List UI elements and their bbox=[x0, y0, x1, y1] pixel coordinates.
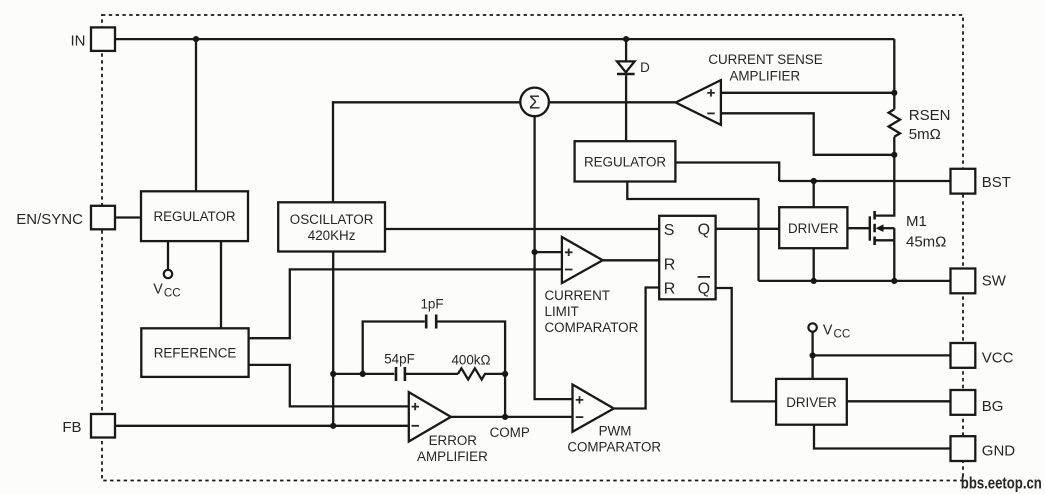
svg-text:RSEN: RSEN bbox=[909, 107, 951, 124]
svg-text:COMP: COMP bbox=[490, 425, 530, 440]
svg-text:COMPARATOR: COMPARATOR bbox=[545, 320, 639, 335]
svg-text:400kΩ: 400kΩ bbox=[451, 352, 490, 367]
svg-text:R: R bbox=[664, 256, 676, 273]
svg-text:OSCILLATOR: OSCILLATOR bbox=[290, 212, 374, 227]
svg-text:REGULATOR: REGULATOR bbox=[153, 209, 235, 224]
svg-text:5mΩ: 5mΩ bbox=[909, 126, 941, 143]
svg-text:IN: IN bbox=[71, 33, 86, 50]
svg-text:D: D bbox=[640, 60, 650, 75]
svg-text:V: V bbox=[153, 281, 163, 297]
svg-text:REFERENCE: REFERENCE bbox=[154, 345, 237, 360]
svg-text:PWM: PWM bbox=[599, 423, 632, 438]
svg-text:VCC: VCC bbox=[982, 349, 1014, 366]
svg-text:CC: CC bbox=[834, 328, 851, 341]
svg-text:V: V bbox=[823, 322, 833, 338]
svg-text:DRIVER: DRIVER bbox=[788, 221, 839, 236]
svg-text:M1: M1 bbox=[906, 213, 927, 230]
svg-text:54pF: 54pF bbox=[384, 351, 415, 366]
svg-text:bbs.eetop.cn: bbs.eetop.cn bbox=[961, 474, 1042, 493]
svg-text:Σ: Σ bbox=[529, 92, 540, 113]
svg-text:EN/SYNC: EN/SYNC bbox=[16, 211, 83, 228]
svg-text:COMPARATOR: COMPARATOR bbox=[567, 440, 661, 455]
svg-text:BST: BST bbox=[982, 174, 1011, 191]
svg-text:BG: BG bbox=[982, 398, 1004, 415]
svg-text:CURRENT: CURRENT bbox=[545, 288, 610, 303]
svg-text:ERROR: ERROR bbox=[429, 433, 478, 448]
svg-text:GND: GND bbox=[982, 443, 1016, 460]
svg-text:LIMIT: LIMIT bbox=[545, 304, 579, 319]
svg-text:REGULATOR: REGULATOR bbox=[584, 154, 666, 169]
svg-text:CURRENT SENSE: CURRENT SENSE bbox=[708, 52, 822, 67]
svg-text:1pF: 1pF bbox=[420, 296, 443, 311]
svg-text:DRIVER: DRIVER bbox=[786, 395, 837, 410]
svg-text:Q: Q bbox=[698, 222, 710, 239]
svg-text:S: S bbox=[664, 222, 675, 239]
svg-text:Q: Q bbox=[698, 281, 710, 298]
svg-text:AMPLIFIER: AMPLIFIER bbox=[729, 68, 800, 83]
svg-text:45mΩ: 45mΩ bbox=[906, 233, 946, 250]
svg-text:CC: CC bbox=[164, 287, 181, 300]
svg-text:R: R bbox=[664, 281, 676, 298]
svg-text:SW: SW bbox=[982, 272, 1007, 289]
svg-text:FB: FB bbox=[62, 419, 81, 436]
svg-text:AMPLIFIER: AMPLIFIER bbox=[417, 449, 488, 464]
svg-text:420KHz: 420KHz bbox=[308, 228, 356, 243]
